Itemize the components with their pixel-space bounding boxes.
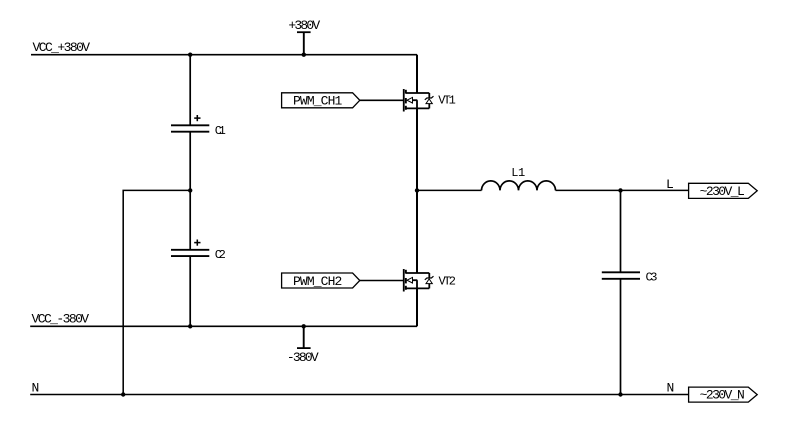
transistor VT2 (N-MOSFET with body diode): [404, 269, 434, 292]
junction C2 bottom on VCC_-380V rail: [188, 324, 192, 328]
svg-text:C2: C2: [215, 248, 226, 262]
svg-text:L: L: [666, 177, 674, 192]
inductor L1: [482, 181, 556, 191]
wire C3 bottom to N rail: [620, 280, 622, 395]
global label PWM_CH1: [282, 93, 360, 109]
svg-text:PWM_CH2: PWM_CH2: [293, 274, 342, 289]
wire midpoint to left column: [123, 190, 190, 394]
svg-text:C3: C3: [646, 271, 658, 285]
wire N rail: [30, 394, 688, 396]
junction at -380V on bottom rail: [302, 324, 306, 328]
svg-text:+380V: +380V: [288, 18, 320, 33]
junction C3 top on L wire: [618, 188, 622, 192]
wire VCC_-380V bottom rail: [30, 325, 417, 327]
junction C3 bottom on N rail: [618, 392, 622, 396]
global label PWM_CH2: [282, 273, 360, 289]
wire L1 to output L: [556, 189, 689, 191]
C2 polarity plus sign: [194, 240, 200, 246]
svg-text:VCC_+380V: VCC_+380V: [33, 40, 91, 55]
wire PWM_CH2 to VT2 gate: [360, 280, 403, 282]
junction at +380V on top rail: [302, 53, 306, 57]
capacitor C1 (polarized): [171, 125, 209, 131]
wire mid node to L1: [417, 189, 482, 191]
svg-text:-380V: -380V: [287, 350, 319, 365]
power symbol +380V: [297, 32, 311, 55]
C1 polarity plus sign: [194, 115, 200, 121]
svg-text:VCC_-380V: VCC_-380V: [32, 312, 90, 327]
wire mid junction to C2: [189, 190, 191, 249]
svg-text:VT2: VT2: [439, 274, 457, 288]
svg-text:~230V_L: ~230V_L: [700, 184, 745, 199]
wire VT1 source to mid node: [416, 108, 418, 190]
capacitor C3: [602, 272, 640, 279]
wire C3 top: [620, 190, 622, 271]
svg-text:N: N: [667, 380, 675, 395]
wire top rail to C1: [189, 55, 191, 125]
junction mid node: [415, 188, 419, 192]
wire C2 to bottom rail: [189, 257, 191, 327]
svg-text:L1: L1: [511, 166, 525, 180]
capacitor C2 (polarized): [171, 250, 209, 256]
svg-text:PWM_CH1: PWM_CH1: [293, 94, 342, 109]
junction at C1 top on top rail: [188, 53, 192, 57]
wire VT1 drain to top rail: [416, 55, 418, 93]
svg-text:VT1: VT1: [438, 94, 456, 108]
junction left column on N rail: [121, 392, 125, 396]
power symbol -380V: [297, 326, 311, 348]
transistor VT1 (N-MOSFET with body diode): [404, 89, 434, 112]
svg-text:N: N: [32, 381, 40, 396]
wire VCC_+380V top rail: [31, 54, 417, 56]
wire C1 to mid junction: [189, 132, 191, 190]
svg-text:C1: C1: [215, 124, 226, 138]
wire VT2 source to bottom rail: [416, 288, 418, 326]
global label ~230V_L: [689, 183, 758, 199]
svg-text:~230V_N: ~230V_N: [700, 388, 745, 403]
wire VT2 drain to mid node: [416, 190, 418, 273]
wire PWM_CH1 to VT1 gate: [360, 99, 403, 101]
global label ~230V_N: [689, 387, 758, 403]
junction capacitor midpoint: [188, 188, 192, 192]
